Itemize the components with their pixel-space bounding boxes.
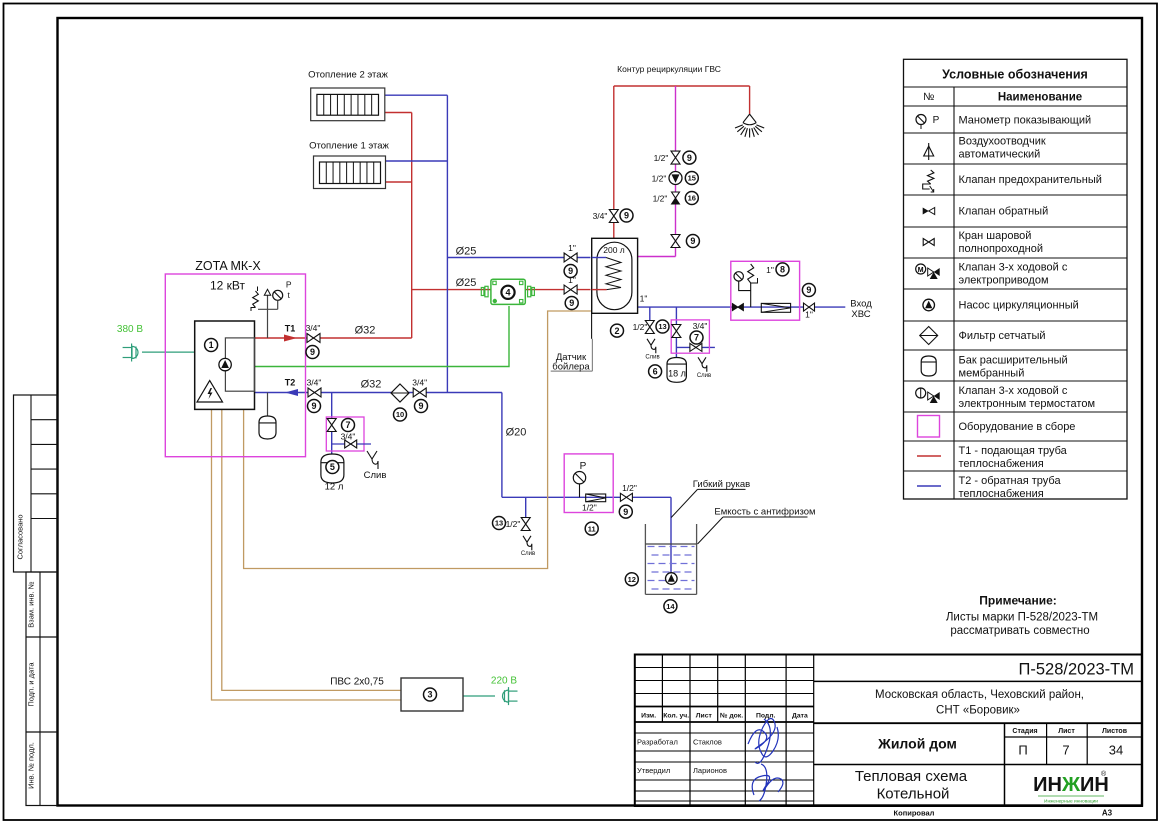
svg-text:Кол. уч.: Кол. уч. (663, 713, 689, 720)
svg-text:3/4": 3/4" (693, 321, 708, 331)
svg-text:15: 15 (688, 174, 696, 183)
svg-text:Емкость с антифризом: Емкость с антифризом (714, 507, 815, 518)
wire power 220V (463, 695, 495, 697)
svg-text:1/2": 1/2" (654, 153, 669, 163)
svg-text:3/4": 3/4" (306, 323, 321, 333)
svg-text:теплоснабжения: теплоснабжения (959, 458, 1044, 470)
wire red T1 boiler to riser (255, 337, 412, 339)
node 6 (649, 365, 662, 378)
valve T2 3/4 (307, 378, 322, 398)
svg-text:Вход: Вход (850, 299, 872, 310)
valve after group11 (620, 483, 637, 501)
legend symbol клапан предохранительный (923, 170, 934, 192)
svg-text:Отопление 1 этаж: Отопление 1 этаж (309, 141, 389, 152)
legend symbol Т1 (917, 455, 941, 457)
title object (877, 736, 957, 752)
svg-text:3/4": 3/4" (412, 378, 427, 388)
svg-text:Контур рециркуляции ГВС: Контур рециркуляции ГВС (617, 64, 721, 74)
node 4 (501, 286, 514, 299)
label O20 (506, 427, 527, 439)
svg-text:9: 9 (806, 285, 811, 295)
label Отопление 1 этаж (309, 141, 389, 152)
svg-text:Отопление 2 этаж: Отопление 2 этаж (308, 70, 388, 81)
legend symbol воздухоотводчик (924, 143, 934, 160)
title col header Кол. уч. (663, 713, 689, 720)
svg-text:Инженерные инновации: Инженерные инновации (1044, 799, 1098, 805)
label t (288, 290, 291, 300)
label P (286, 280, 292, 290)
svg-text:Разработал: Разработал (637, 738, 678, 747)
note title (979, 594, 1057, 608)
svg-text:№ док.: № док. (720, 713, 743, 720)
pump antifreeze 14 (666, 573, 678, 585)
drain hook group6 (698, 357, 707, 371)
svg-text:теплоснабжения: теплоснабжения (959, 488, 1044, 500)
svg-text:электронным термостатом: электронным термостатом (959, 398, 1096, 410)
equipment box boiler assembly (165, 274, 305, 457)
svg-text:14: 14 (666, 602, 675, 611)
node 9 group8 (802, 284, 815, 297)
svg-text:9: 9 (418, 401, 423, 411)
svg-text:8: 8 (780, 265, 785, 275)
svg-text:Наименование: Наименование (998, 92, 1082, 104)
svg-text:Жилой дом: Жилой дом (877, 736, 957, 752)
svg-text:9: 9 (569, 298, 574, 308)
svg-text:Стаклов: Стаклов (693, 738, 722, 747)
legend header Наименование (998, 92, 1082, 104)
svg-text:9: 9 (687, 153, 692, 163)
wire blue to antifreeze tank (670, 497, 672, 573)
node 9 T2 valve (308, 400, 321, 413)
label T1 (285, 324, 296, 334)
label Отопление 2 этаж (308, 70, 388, 81)
svg-text:автоматический: автоматический (959, 149, 1041, 161)
svg-text:220 В: 220 В (491, 676, 517, 687)
node 9 T1 valve (306, 346, 319, 359)
svg-text:9: 9 (311, 401, 316, 411)
svg-text:Т2 - обратная труба: Т2 - обратная труба (959, 475, 1062, 487)
svg-text:9: 9 (623, 507, 628, 517)
note line2 (950, 625, 1089, 637)
svg-text:1/2": 1/2" (653, 194, 668, 204)
svg-text:Манометр показывающий: Манометр показывающий (959, 115, 1092, 127)
svg-text:Условные обозначения: Условные обозначения (942, 68, 1088, 82)
label sliv group6 (697, 373, 711, 379)
legend symbol фильтр сетчатый (920, 327, 938, 345)
left margin table Согласовано (14, 395, 58, 572)
legend symbol клапан 3-х ходовой с термостатом (916, 388, 940, 403)
legend symbol кран шаровой (923, 239, 934, 246)
signatures (748, 719, 783, 801)
wire red DHW supply O25 (412, 289, 591, 291)
title address line2 (936, 705, 1020, 717)
svg-text:1/2": 1/2" (652, 174, 667, 184)
svg-text:7: 7 (694, 333, 699, 343)
wire blue radiator2 branch (385, 94, 447, 96)
left margin table lower sections (26, 572, 57, 806)
manometer group8 (734, 272, 743, 281)
label ПВС (330, 677, 384, 688)
svg-text:А3: А3 (1102, 809, 1113, 818)
svg-text:P: P (933, 115, 940, 126)
manometer group11 (573, 472, 585, 498)
title doc number (1019, 661, 1135, 679)
title Ларионов (693, 766, 727, 775)
legend text Т2 (959, 475, 1062, 500)
svg-text:1: 1 (209, 340, 214, 350)
svg-text:ZOTA МК-X: ZOTA МК-X (195, 259, 261, 273)
boiler internal loop (225, 338, 254, 391)
svg-text:7: 7 (1062, 743, 1069, 758)
wire red tank riser (613, 86, 615, 238)
label O25 red (456, 277, 477, 289)
wire red radiator1 branch (386, 181, 412, 183)
legend text насос (959, 300, 1079, 312)
svg-text:3/4": 3/4" (593, 211, 608, 221)
pump boiler circulation (219, 358, 231, 370)
svg-text:9: 9 (624, 211, 629, 221)
wire blue radiator riser (446, 95, 448, 392)
svg-text:3/4": 3/4" (341, 432, 356, 442)
svg-text:Слив: Слив (697, 373, 711, 379)
check valve 16 (653, 192, 680, 204)
svg-text:Листов: Листов (1102, 728, 1128, 735)
label 200l (603, 245, 625, 255)
svg-text:Слив: Слив (364, 470, 387, 481)
title sheet 7 (1062, 743, 1069, 758)
svg-text:П: П (1018, 743, 1027, 758)
title sheet name1 (855, 768, 968, 785)
svg-text:12 кВт: 12 кВт (210, 279, 246, 293)
legend text клапан обратный (959, 206, 1049, 218)
svg-text:M: M (918, 267, 924, 274)
venturi group8 (761, 303, 790, 312)
legend text клапан 3-х ходовой с электроприводом (959, 262, 1068, 287)
label 380V (117, 324, 143, 335)
svg-text:10: 10 (396, 410, 404, 419)
svg-text:СНТ «Боровик»: СНТ «Боровик» (936, 705, 1020, 717)
wire blue tank outlet 1in (638, 306, 846, 308)
wire tan cable1 (212, 409, 402, 700)
svg-text:электроприводом: электроприводом (959, 275, 1049, 287)
drain hook 13b (523, 536, 532, 550)
valve 13b (506, 518, 531, 531)
node 9 red 1in (565, 297, 578, 310)
svg-text:Копировал: Копировал (894, 809, 935, 818)
title Стаклов (693, 738, 722, 747)
legend text клапан предохранительный (959, 174, 1102, 186)
node 9 red riser (620, 209, 633, 222)
svg-text:ИНЖИН: ИНЖИН (1033, 774, 1109, 796)
svg-text:Утвердил: Утвердил (637, 766, 670, 775)
svg-text:1": 1" (805, 310, 813, 320)
title sheet name2 (877, 786, 950, 803)
boiler tank 200l (592, 238, 638, 313)
valve red riser 3/4 (593, 210, 619, 223)
svg-text:1": 1" (640, 294, 648, 304)
svg-text:Дата: Дата (792, 713, 808, 720)
title col header Лист (696, 713, 713, 720)
wire blue O20 horizontal (502, 496, 671, 498)
node 9 group11 (619, 505, 632, 518)
title Стадия (1012, 728, 1037, 735)
label O32 T1 (355, 325, 376, 337)
node 12 (625, 573, 638, 586)
venturi group11 (586, 494, 606, 502)
svg-text:бойлера: бойлера (552, 362, 590, 373)
heat exchanger 4 (481, 279, 534, 304)
title Листов (1102, 728, 1128, 735)
svg-text:Листы марки П-528/2023-ТМ: Листы марки П-528/2023-ТМ (946, 612, 1098, 624)
svg-text:Клапан обратный: Клапан обратный (959, 206, 1049, 218)
wire magenta recirc to tank (638, 256, 676, 258)
svg-text:1/2": 1/2" (582, 503, 597, 513)
valve blue 1in (564, 243, 577, 262)
pump recirc 15 (652, 172, 682, 185)
svg-text:1": 1" (766, 265, 774, 275)
valve after group8 (804, 303, 815, 319)
node 13b (493, 517, 506, 530)
svg-text:200 л: 200 л (603, 245, 625, 255)
equipment box group 6-7 (671, 320, 709, 353)
label гибкий рукав (671, 479, 750, 518)
svg-text:34: 34 (1109, 743, 1123, 758)
svg-text:Взам. инв. №: Взам. инв. № (27, 581, 36, 627)
sensor connector lines (551, 313, 593, 371)
title Лист (1058, 728, 1075, 735)
node 7 group6 (690, 331, 703, 344)
label O32 T2 (361, 379, 382, 391)
legend text оборудование в сборе (959, 421, 1076, 433)
legend text бак расширительный (959, 355, 1068, 380)
wire blue drain13a branch (649, 307, 651, 321)
svg-text:Ø20: Ø20 (506, 427, 527, 439)
boiler body (195, 321, 255, 409)
svg-text:1/2": 1/2" (633, 322, 648, 332)
legend table grid (904, 59, 1128, 499)
svg-text:Кран шаровой: Кран шаровой (959, 230, 1032, 242)
node 5 tank12 (326, 461, 339, 474)
svg-text:1/2": 1/2" (622, 483, 637, 493)
title address line1 (875, 689, 1084, 701)
node 11 (585, 522, 598, 535)
legend text клапан 3-х ходовой с термостатом (959, 385, 1096, 410)
valve group5 vertical (327, 419, 336, 432)
svg-text:Подп. и дата: Подп. и дата (27, 662, 36, 707)
label 1in tank outlet (640, 294, 648, 304)
valve group5 drain (345, 440, 357, 448)
svg-text:Клапан предохранительный: Клапан предохранительный (959, 174, 1102, 186)
label Копировал (894, 809, 935, 818)
svg-text:полнопроходной: полнопроходной (959, 243, 1044, 255)
svg-text:®: ® (1101, 770, 1107, 778)
label ZOTA MK-X (195, 259, 261, 273)
safety valve boiler spring (251, 287, 258, 312)
svg-text:3/4": 3/4" (307, 378, 322, 388)
label Датчик бойлера (552, 352, 590, 373)
wire blue radiator1 branch (386, 160, 447, 162)
equipment box group 8 (731, 261, 800, 320)
label 18l (668, 369, 686, 379)
legend text кран шаровой (959, 230, 1044, 255)
filter strainer 10 (391, 384, 409, 402)
svg-text:Ø32: Ø32 (361, 379, 382, 391)
title block left grid (635, 655, 814, 807)
svg-text:Лист: Лист (696, 713, 713, 720)
valve T1 3/4 (306, 323, 321, 343)
label 12l (325, 482, 344, 493)
svg-text:Слив: Слив (521, 551, 535, 557)
legend text манометр (959, 115, 1092, 127)
label емкость с антифризом (698, 507, 816, 545)
svg-text:Котельной: Котельной (877, 786, 950, 803)
expansion tank 18l (667, 358, 686, 383)
svg-text:П-528/2023-ТМ: П-528/2023-ТМ (1019, 661, 1135, 679)
wire blue branch to tank5 (331, 393, 333, 456)
legend text Т1 (959, 445, 1068, 470)
title col header Изм. (641, 713, 656, 720)
label O25 blue (456, 246, 477, 258)
label 1/2 group11 (582, 503, 597, 513)
svg-text:4: 4 (505, 288, 510, 298)
expansion tank 12l (321, 454, 344, 483)
equipment box group 11 (564, 454, 613, 513)
wire red radiator2 branch (385, 112, 412, 114)
svg-text:Т1 - подающая труба: Т1 - подающая труба (959, 445, 1068, 457)
warning triangle electric (197, 381, 223, 403)
svg-text:ПВС 2х0,75: ПВС 2х0,75 (330, 677, 384, 688)
label 12 kWt (210, 279, 246, 293)
svg-text:Изм.: Изм. (641, 713, 656, 720)
svg-text:13: 13 (495, 519, 503, 528)
svg-text:P: P (286, 280, 292, 290)
svg-text:1": 1" (568, 275, 576, 285)
wire blue T2 main (255, 392, 502, 394)
svg-text:Ø32: Ø32 (355, 325, 376, 337)
valve group6 vertical (672, 325, 681, 338)
antifreeze tank walls (645, 524, 696, 594)
antifreeze water dashes (648, 547, 695, 590)
label sliv 13b (521, 551, 535, 557)
flow arrow T1 (284, 335, 297, 342)
svg-text:11: 11 (588, 524, 596, 533)
legend symbol Т2 (917, 485, 941, 487)
wire tan cable3 boiler sensor (244, 311, 591, 569)
svg-text:Ø25: Ø25 (456, 246, 477, 258)
svg-text:6: 6 (653, 367, 658, 377)
legend text фильтр сетчатый (959, 330, 1046, 342)
node 2 (611, 324, 624, 337)
check valve group8 (732, 304, 743, 311)
svg-text:Согласовано: Согласовано (16, 514, 25, 559)
wire blue tank6 drain line (676, 346, 715, 348)
node 16 (685, 192, 698, 205)
drain hook group5 (367, 451, 378, 469)
wire blue tank6 branch (675, 307, 677, 358)
node 15 (685, 172, 698, 185)
label P group11 (580, 461, 587, 472)
svg-text:Стадия: Стадия (1012, 728, 1037, 735)
label 3/4 group5 (341, 432, 356, 442)
legend symbol насос (923, 299, 935, 311)
wire green exchanger line (255, 306, 510, 367)
title block outer (635, 655, 1142, 807)
svg-text:Воздухоотводчик: Воздухоотводчик (959, 136, 1046, 148)
control unit 3 (401, 678, 463, 711)
title col header Дата (792, 713, 808, 720)
label 220V (491, 676, 517, 687)
svg-text:Ø25: Ø25 (456, 277, 477, 289)
valve red 1in (564, 275, 577, 294)
svg-text:Лист: Лист (1058, 728, 1075, 735)
node 7 group5 (342, 419, 355, 432)
radiator floor2 (311, 88, 385, 121)
wire blue drain13b branch (525, 497, 527, 517)
svg-text:мембранный: мембранный (959, 368, 1025, 380)
svg-text:Фильтр сетчатый: Фильтр сетчатый (959, 330, 1046, 342)
drain hook 13a (647, 339, 656, 353)
svg-text:рассматривать совместно: рассматривать совместно (950, 625, 1089, 637)
title block right grid (814, 681, 1142, 806)
label Вход ХВС (850, 299, 872, 321)
svg-text:7: 7 (345, 420, 350, 430)
plug 220V (503, 687, 518, 705)
node 8 (776, 263, 789, 276)
flow arrow T2 (285, 389, 298, 396)
svg-text:Тепловая схема: Тепловая схема (855, 768, 968, 785)
node 3 (424, 688, 437, 701)
title col header № док. (720, 713, 743, 720)
svg-text:Примечание:: Примечание: (979, 594, 1057, 608)
label sliv 13a (645, 355, 659, 361)
wire magenta recirc riser (675, 86, 677, 257)
legend symbol клапан обратный (923, 208, 935, 215)
svg-text:Клапан 3-х ходовой с: Клапан 3-х ходовой с (959, 262, 1068, 274)
svg-text:12 л: 12 л (325, 482, 344, 493)
node 10 (394, 408, 407, 421)
valve T2b 3/4 (412, 378, 427, 398)
svg-text:Слив: Слив (645, 355, 659, 361)
safety valve group8 (748, 264, 758, 307)
manometer boiler (273, 290, 283, 309)
svg-text:12: 12 (628, 575, 636, 584)
wire tan cable2 (222, 409, 401, 690)
svg-text:Ларионов: Ларионов (693, 766, 727, 775)
node 9 blue 1in (564, 265, 577, 278)
svg-text:13: 13 (658, 322, 666, 331)
label Sliv group5 (364, 470, 387, 481)
svg-text:Инв. № подл.: Инв. № подл. (27, 742, 36, 789)
wire red shower drop (749, 86, 751, 114)
plug 380V (123, 344, 138, 362)
node 13a (656, 320, 669, 333)
node 1 boiler (205, 339, 218, 352)
legend symbol клапан 3-х ходовой с электроприводом (916, 264, 940, 279)
svg-text:1": 1" (568, 243, 576, 253)
wire red recirculation top (614, 85, 750, 87)
svg-text:1/2": 1/2" (506, 519, 521, 529)
note line1 (946, 612, 1098, 624)
logo ИНЖИН (1033, 770, 1109, 805)
svg-text:Оборудование в сборе: Оборудование в сборе (959, 421, 1076, 433)
title stage П (1018, 743, 1027, 758)
svg-text:P: P (580, 461, 587, 472)
radiator floor1 (314, 156, 386, 189)
title col header Подл. (756, 713, 776, 720)
equipment box group 5-7 (326, 417, 364, 451)
svg-text:Московская область, Чеховский: Московская область, Чеховский район, (875, 689, 1084, 701)
wire drain group5 (332, 443, 371, 445)
